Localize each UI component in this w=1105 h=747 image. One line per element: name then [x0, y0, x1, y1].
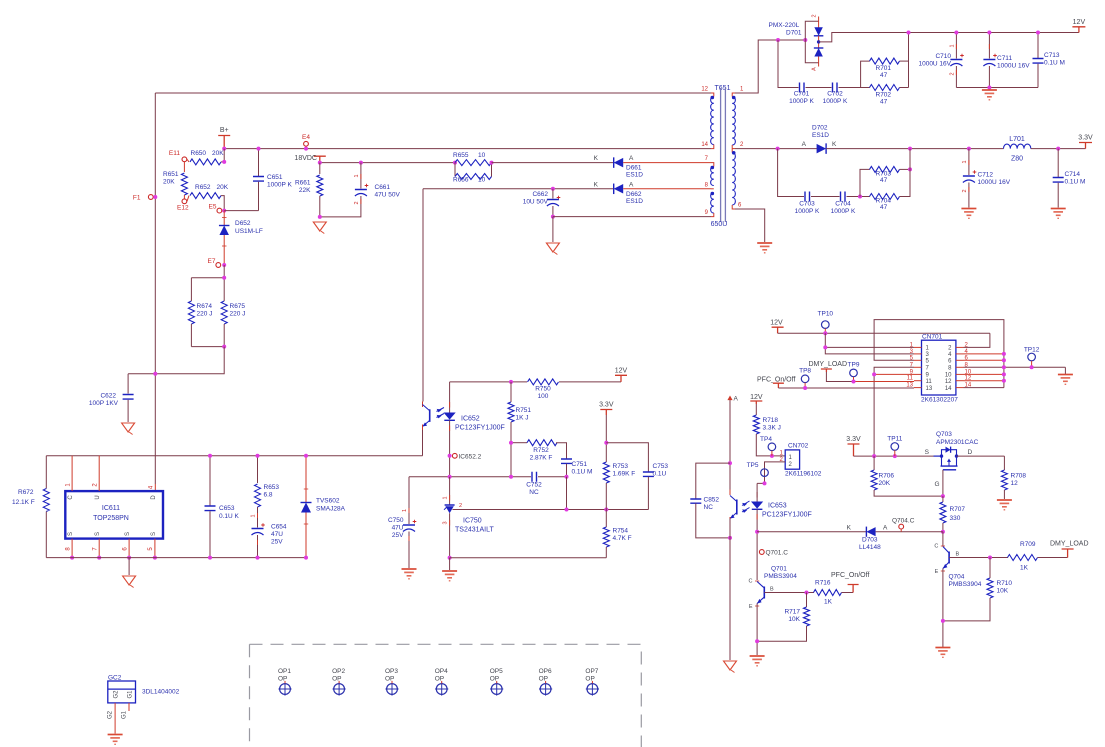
svg-text:TVS602: TVS602 — [316, 498, 340, 505]
power symbol 12V R718 — [750, 401, 762, 404]
svg-text:B+: B+ — [220, 127, 229, 134]
resistor R710 — [987, 578, 993, 598]
junction — [941, 494, 945, 498]
wire R707 top lead — [942, 496, 944, 502]
transformer polarity dot — [711, 96, 715, 100]
svg-text:20K: 20K — [163, 179, 175, 186]
svg-text:1.69K F: 1.69K F — [613, 471, 636, 478]
wire pin8 net row — [423, 188, 614, 190]
pin tick C750 1 — [408, 508, 410, 513]
wire C662 to ground — [552, 217, 554, 242]
junction — [776, 38, 780, 42]
capacitor C702 — [833, 83, 838, 93]
svg-text:0.1U K: 0.1U K — [219, 513, 240, 520]
wire R718 top lead — [755, 404, 757, 415]
wire 18VDC to D661 — [492, 162, 614, 164]
wire R706 top lead — [873, 456, 875, 470]
wire C711 top lead — [988, 33, 990, 59]
ground T651 pin6 — [757, 242, 772, 244]
junction — [551, 215, 555, 219]
wire R652 right to E5 node — [221, 196, 224, 211]
resistor R661 — [317, 175, 323, 196]
wire Q704 base row — [949, 557, 1008, 559]
svg-text:PFC_On/Off: PFC_On/Off — [831, 572, 869, 579]
wire R718 bottom lead — [756, 434, 785, 456]
testpoint TP9 — [850, 369, 858, 377]
wire R716 to PFC — [842, 592, 854, 594]
svg-text:TOP258PN: TOP258PN — [93, 515, 129, 522]
svg-text:R674: R674 — [197, 303, 213, 310]
svg-text:C711: C711 — [997, 55, 1012, 62]
svg-text:220 J: 220 J — [230, 311, 246, 318]
wire pin5 row — [874, 320, 1004, 388]
pin stub D701 top — [818, 17, 820, 29]
diode D652 — [219, 226, 229, 236]
junction — [304, 147, 308, 151]
junction — [1036, 31, 1040, 35]
pin tick IC750 1 — [449, 495, 451, 501]
pin stub CN701 4 — [956, 353, 964, 355]
svg-text:L701: L701 — [1009, 136, 1025, 143]
junction — [304, 454, 308, 458]
wire C712 bottom lead — [968, 183, 970, 208]
capacitor C654 — [252, 528, 264, 530]
wire T651 pin12 stub — [711, 93, 714, 97]
svg-text:E: E — [935, 569, 939, 575]
pin stub TP4 — [771, 451, 773, 456]
svg-text:C: C — [934, 544, 938, 550]
svg-text:12V: 12V — [1073, 19, 1086, 26]
svg-text:PFC_On/Off: PFC_On/Off — [757, 377, 795, 384]
wire 3.3V rail right — [854, 455, 934, 457]
resistor R655 — [455, 160, 492, 166]
svg-text:PMBS3904: PMBS3904 — [764, 573, 797, 580]
wire R674 R675 box top — [191, 277, 224, 279]
svg-text:ES1D: ES1D — [626, 198, 643, 205]
component GC2 body — [108, 681, 136, 703]
svg-text:D: D — [151, 495, 157, 500]
wire C751 node down — [566, 477, 568, 510]
svg-text:C752: C752 — [526, 482, 542, 489]
junction — [987, 31, 991, 35]
wire IC750 anode lead — [449, 513, 451, 558]
svg-text:E4: E4 — [302, 134, 310, 141]
wire drain net left side — [154, 93, 156, 484]
testpoint TP12 — [1028, 353, 1036, 361]
ground TP12 — [1058, 374, 1073, 376]
pin tick C710 1 — [955, 44, 957, 49]
wire pin12 row — [964, 380, 1004, 382]
junction — [941, 619, 945, 623]
svg-text:4.7K F: 4.7K F — [613, 535, 632, 542]
wire pin9 row — [874, 373, 914, 375]
svg-text:OP: OP — [385, 676, 394, 683]
testpoint OP2 — [334, 684, 345, 695]
opto IC652 light arrows — [437, 408, 445, 418]
capacitor C751 — [561, 459, 572, 463]
svg-text:C704: C704 — [835, 201, 851, 208]
capacitor C714 — [1053, 178, 1064, 183]
svg-text:1000U 16V: 1000U 16V — [997, 63, 1030, 70]
pin stub IC611 pin8 — [71, 539, 73, 558]
svg-text:47: 47 — [880, 177, 888, 184]
pin stub GC2 G1 — [128, 703, 130, 711]
wire R710 top lead — [989, 558, 991, 579]
svg-text:CN702: CN702 — [788, 443, 809, 450]
pin tick IC653 3 — [729, 517, 731, 523]
power symbol 3.3V switch — [848, 444, 860, 456]
resistor R750 — [528, 379, 559, 385]
svg-text:R650: R650 — [191, 150, 207, 157]
svg-text:NC: NC — [704, 504, 714, 511]
svg-text:R675: R675 — [230, 303, 246, 310]
svg-text:3.3V: 3.3V — [599, 402, 614, 409]
wire TVS602 top lead — [305, 456, 307, 502]
net arrow A — [729, 398, 731, 403]
wire R653 to C654 — [257, 507, 259, 528]
svg-text:C710: C710 — [935, 53, 951, 60]
svg-text:10U 50V: 10U 50V — [523, 199, 549, 206]
pin tick C710 2 — [955, 70, 957, 75]
junction — [1030, 365, 1034, 369]
capacitor C662 — [547, 199, 559, 201]
svg-text:DMY_LOAD: DMY_LOAD — [1050, 541, 1089, 548]
wire R655 box right — [491, 163, 493, 177]
svg-text:3DL1404002: 3DL1404002 — [142, 689, 180, 696]
resistor R717 — [804, 607, 810, 626]
svg-text:47: 47 — [880, 72, 888, 79]
svg-text:R718: R718 — [763, 417, 779, 424]
svg-text:R701: R701 — [876, 65, 892, 72]
wire C710 top lead — [955, 33, 957, 59]
inductor L701 — [1004, 144, 1031, 149]
capacitor C711 — [983, 59, 995, 61]
svg-text:100P 1KV: 100P 1KV — [89, 400, 119, 407]
diode D703 — [866, 527, 875, 536]
svg-text:6.8: 6.8 — [264, 492, 273, 499]
svg-text:13: 13 — [926, 386, 933, 392]
capacitor C703 — [805, 192, 810, 202]
wire control rail — [46, 455, 422, 457]
wire D701 out — [819, 33, 1079, 42]
junction — [565, 508, 569, 512]
svg-text:R750: R750 — [535, 386, 551, 393]
ground R661 C661 — [313, 222, 326, 231]
wire E12 to R652 — [187, 196, 189, 202]
pin tick C750 2 — [408, 536, 410, 541]
wire R650 right — [221, 149, 224, 162]
junction — [852, 380, 856, 384]
svg-text:TP11: TP11 — [887, 436, 902, 443]
junction — [908, 147, 912, 151]
svg-text:2.87K F: 2.87K F — [530, 455, 553, 462]
svg-text:1: 1 — [950, 44, 956, 47]
junction — [304, 556, 308, 560]
wire Q701 emitter down — [756, 604, 758, 656]
pin tick IC652 3 — [422, 425, 424, 431]
svg-text:1000P K: 1000P K — [267, 182, 292, 189]
wire pin6 row — [964, 359, 1004, 361]
svg-text:G: G — [934, 481, 939, 488]
svg-text:TP8: TP8 — [799, 368, 811, 375]
svg-text:2K61196102: 2K61196102 — [785, 471, 822, 478]
wire R703 right — [900, 168, 911, 170]
pin stub Q704.C — [900, 529, 902, 532]
opto IC652 LED — [444, 413, 456, 420]
svg-text:R709: R709 — [1020, 541, 1036, 548]
junction — [1002, 352, 1006, 356]
wire pin7 row — [874, 367, 914, 456]
junction — [256, 454, 260, 458]
wire L701 to 3.3V — [1031, 148, 1086, 150]
testpoint OP1 — [280, 684, 291, 695]
capacitor C753 — [643, 472, 654, 476]
pin stub TP8 — [804, 383, 806, 388]
pin stub CN701 13 — [914, 387, 922, 389]
pin stub CN701 6 — [956, 359, 964, 361]
junction — [453, 161, 457, 165]
svg-text:2: 2 — [354, 201, 360, 204]
wire C653 top lead — [209, 456, 211, 506]
svg-text:12V: 12V — [750, 394, 763, 401]
pin stub IC611 pin4 drain — [154, 484, 156, 491]
junction — [805, 591, 809, 595]
resistor R672 — [43, 489, 49, 512]
wire ref node row — [453, 509, 649, 511]
junction — [872, 454, 876, 458]
wire IC750 cathode lead — [449, 477, 451, 505]
pin tick Q704 E — [941, 570, 945, 572]
svg-text:D662: D662 — [626, 191, 642, 198]
svg-text:0.1U: 0.1U — [653, 471, 667, 478]
junction — [318, 215, 322, 219]
pin stub TP12 — [1031, 361, 1033, 368]
junction — [222, 209, 226, 213]
capacitor C704 — [841, 192, 846, 202]
wire R661 bottom lead — [319, 196, 321, 217]
transformer T651 primary winding pin12-14 — [711, 97, 714, 145]
resistor R701 — [870, 58, 900, 64]
transformer T651 bias winding pin7-8 — [711, 167, 714, 186]
ground cap bank — [982, 89, 997, 91]
svg-text:S: S — [151, 532, 157, 536]
svg-text:25V: 25V — [271, 539, 283, 546]
svg-text:ES1D: ES1D — [812, 132, 829, 139]
pin stub D701 bottom — [818, 57, 820, 67]
svg-text:1K J: 1K J — [516, 415, 529, 422]
junction — [1002, 365, 1006, 369]
wire C703 to C704 — [811, 196, 840, 198]
power symbol 12V top — [1072, 27, 1085, 33]
svg-text:A: A — [883, 525, 888, 532]
wire C750 top lead — [408, 477, 410, 524]
svg-text:12.1K F: 12.1K F — [12, 499, 35, 506]
node Q701.C — [759, 550, 764, 555]
svg-text:IC653: IC653 — [768, 503, 787, 510]
ground C662 — [546, 243, 559, 252]
svg-text:OP3: OP3 — [385, 668, 398, 675]
wire cap bank bottom rail — [956, 87, 1038, 89]
junction — [208, 454, 212, 458]
svg-text:10K: 10K — [788, 616, 800, 623]
ground C622 — [122, 423, 135, 432]
ground net A column — [724, 661, 737, 670]
dashed boundary box — [250, 644, 642, 747]
pin tick IC653 2 — [756, 514, 758, 520]
svg-text:22K: 22K — [299, 187, 311, 194]
capacitor C653 — [205, 506, 216, 511]
svg-text:A: A — [812, 67, 818, 71]
svg-text:D701: D701 — [786, 30, 802, 37]
junction — [127, 556, 131, 560]
wire Q703 gate — [942, 470, 944, 496]
resistor R656 — [455, 174, 492, 180]
wire C704 to R box — [847, 196, 870, 198]
wire C651 top — [258, 149, 260, 176]
testpoint TP4 — [768, 443, 776, 451]
junction — [967, 147, 971, 151]
wire C713 top lead — [1037, 33, 1039, 59]
capacitor C752 — [532, 472, 537, 482]
svg-text:1: 1 — [402, 509, 408, 512]
wire R706 bottom lead — [874, 490, 943, 496]
svg-text:10: 10 — [478, 152, 486, 159]
wire C750 bottom lead — [408, 532, 410, 569]
svg-text:IC652.2: IC652.2 — [459, 453, 482, 460]
junction — [222, 276, 226, 280]
svg-text:C712: C712 — [978, 172, 994, 179]
svg-text:R656: R656 — [453, 177, 469, 184]
ground GC2 — [108, 734, 123, 736]
svg-text:330: 330 — [950, 515, 961, 522]
testpoint OP4 — [436, 684, 447, 695]
svg-text:C702: C702 — [827, 91, 843, 98]
pin tick C661 1 — [360, 174, 362, 179]
junction — [448, 556, 452, 560]
svg-text:Z80: Z80 — [1011, 156, 1023, 163]
svg-text:20K: 20K — [879, 480, 891, 487]
wire T651 pin6 stub — [732, 205, 735, 209]
junction — [97, 556, 101, 560]
svg-text:R753: R753 — [613, 463, 629, 470]
svg-text:11: 11 — [907, 376, 914, 382]
wire R674 R675 box bottom — [191, 346, 224, 348]
svg-text:K: K — [832, 141, 837, 148]
svg-text:C753: C753 — [653, 463, 669, 470]
wire T651 pin7 stub — [711, 163, 714, 167]
node IC652.2 — [452, 453, 457, 458]
svg-text:T651: T651 — [715, 85, 731, 92]
pin tick IC652 1 — [449, 402, 451, 408]
wire E5 to D652 — [223, 211, 225, 225]
svg-text:3: 3 — [443, 521, 449, 524]
pin tick IC750 3 — [449, 520, 451, 526]
junction — [872, 372, 876, 376]
wire R753 bottom lead — [605, 483, 607, 510]
svg-text:Q704: Q704 — [949, 574, 965, 581]
svg-text:C651: C651 — [267, 174, 283, 181]
junction — [604, 441, 608, 445]
svg-text:R655: R655 — [453, 152, 469, 159]
wire box to C622 row — [128, 347, 224, 374]
svg-text:PMBS3904: PMBS3904 — [949, 581, 982, 588]
pin stub CN701 7 — [914, 366, 922, 368]
wire 3.3V to R753 — [605, 415, 607, 462]
svg-text:OP: OP — [585, 676, 594, 683]
svg-text:D: D — [968, 449, 973, 456]
wire C710 bottom lead — [955, 66, 957, 88]
wire C753 bottom lead — [647, 477, 649, 510]
resistor R704 — [870, 194, 900, 200]
pin tick IC653 4 — [729, 490, 731, 496]
pin stub TP10 — [824, 328, 826, 333]
svg-text:1000P K: 1000P K — [795, 208, 820, 215]
junction — [1002, 379, 1006, 383]
svg-text:OP6: OP6 — [539, 668, 552, 675]
testpoint TP8 — [801, 375, 809, 383]
svg-text:3.3K J: 3.3K J — [763, 425, 781, 432]
pin stub CN701 5 — [914, 359, 922, 361]
junction — [153, 556, 157, 560]
wire anode row — [450, 557, 607, 559]
wire D701 middle link — [818, 36, 820, 48]
wire IC750 anode to ground — [449, 558, 451, 570]
junction — [954, 31, 958, 35]
resistor R650 — [190, 159, 221, 165]
wire R674 bottom lead — [190, 324, 192, 347]
svg-text:1: 1 — [962, 160, 968, 163]
svg-text:220 J: 220 J — [197, 311, 213, 318]
svg-text:C: C — [68, 495, 74, 500]
wire IC653 LED anode lead — [756, 483, 758, 501]
wire D652 to E7 — [223, 235, 225, 265]
pin stub TP9 — [853, 377, 855, 382]
junction — [770, 454, 774, 458]
node E12 — [182, 199, 187, 204]
transistor Q703 MOSFET — [934, 455, 942, 457]
wire C654 bottom lead — [257, 535, 259, 558]
svg-text:R710: R710 — [997, 580, 1013, 587]
pin tick C661 2 — [360, 199, 362, 204]
testpoint OP3 — [387, 684, 398, 695]
svg-text:A: A — [734, 396, 739, 403]
testpoint TP11 — [891, 443, 899, 451]
svg-text:K: K — [594, 155, 599, 162]
resistor R709 — [1008, 555, 1038, 561]
resistor R675 — [221, 301, 227, 324]
wire R752 left lead — [511, 442, 527, 444]
pin mark TVS K — [304, 488, 308, 490]
junction — [222, 263, 226, 267]
svg-text:PMX-220L: PMX-220L — [769, 22, 800, 29]
pin tick C711 1 — [988, 44, 990, 49]
wire C714 top lead — [1057, 149, 1059, 177]
svg-text:OP: OP — [278, 676, 287, 683]
pin tick C712 2 — [968, 187, 970, 192]
pin stub CN701 14 — [956, 387, 964, 389]
pin stub CN701 2 — [956, 346, 964, 348]
pin tick IC652 2 — [449, 426, 451, 432]
wire T651 pin14 stub — [711, 145, 714, 149]
wire C711 bottom lead — [988, 66, 990, 88]
svg-text:OP2: OP2 — [332, 668, 345, 675]
svg-text:S: S — [95, 532, 101, 536]
wire R702 right — [900, 87, 909, 89]
wire IC653 emitter down — [729, 519, 731, 661]
wire net A column — [729, 403, 731, 490]
wire C852 bottom lead — [696, 503, 730, 538]
svg-text:S: S — [125, 532, 131, 536]
